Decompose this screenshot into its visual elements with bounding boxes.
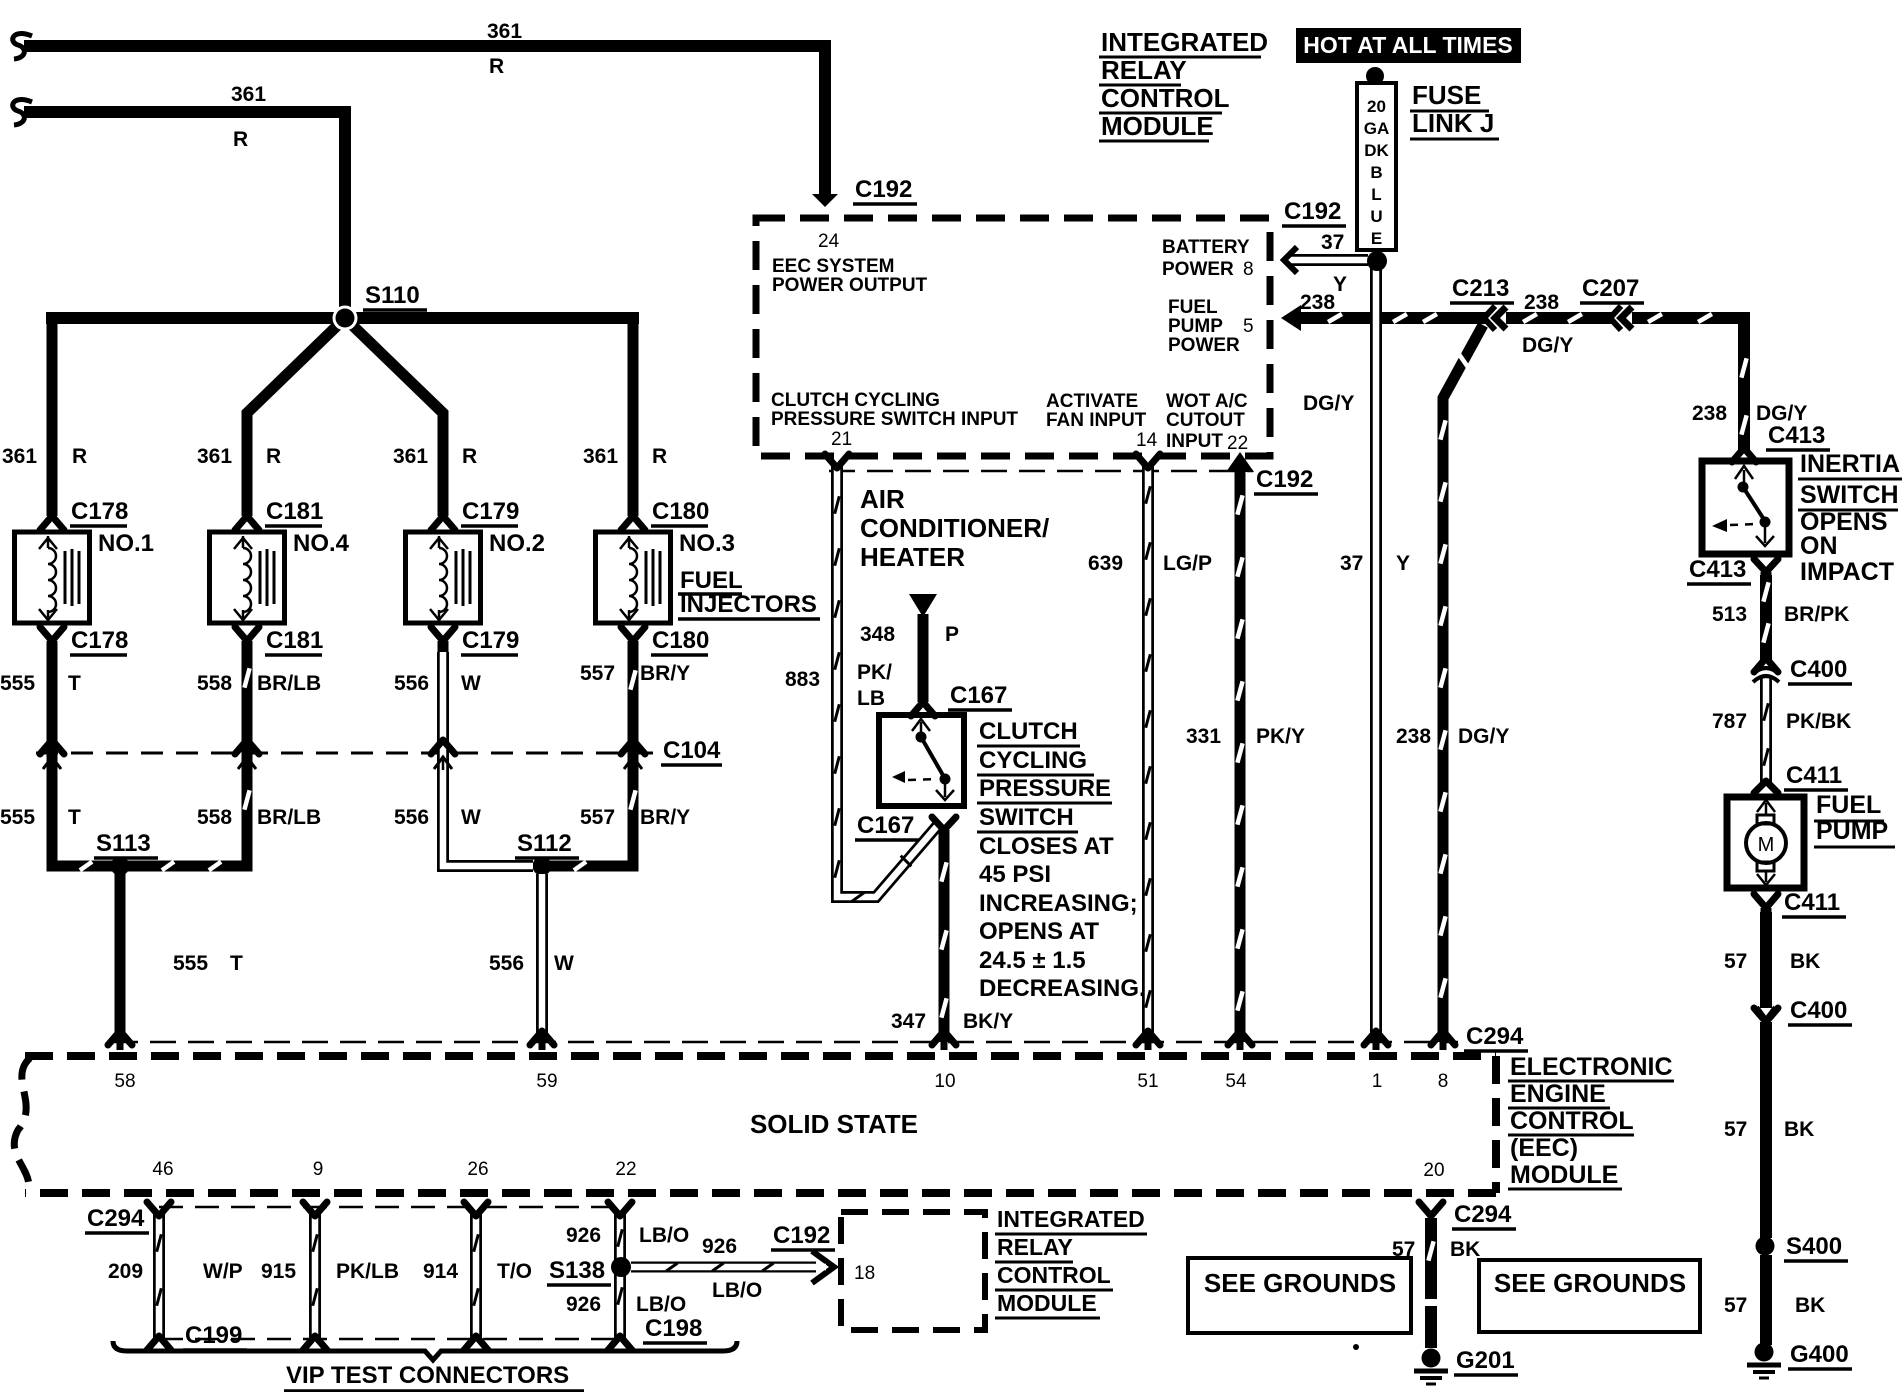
svg-text:37: 37	[1340, 552, 1363, 575]
svg-text:639: 639	[1088, 552, 1123, 575]
svg-text:C400: C400	[1790, 997, 1847, 1024]
svg-text:555: 555	[0, 806, 35, 829]
svg-text:BR/LB: BR/LB	[257, 806, 321, 829]
svg-text:C180: C180	[652, 627, 709, 654]
svg-text:22: 22	[1227, 433, 1248, 454]
svg-text:C181: C181	[266, 627, 323, 654]
svg-text:FUSE: FUSE	[1412, 80, 1481, 110]
svg-text:FUEL: FUEL	[1168, 297, 1218, 318]
connector forks at EEC/C294 edge	[108, 1031, 132, 1045]
svg-text:NO.2: NO.2	[489, 530, 545, 557]
wire 557 BR/Y (injector 3 to S112)	[548, 641, 633, 866]
svg-text:L: L	[1371, 185, 1381, 204]
inertia switch	[1702, 461, 1789, 554]
svg-text:C180: C180	[652, 498, 709, 525]
svg-text:558: 558	[197, 672, 232, 695]
svg-text:INTEGRATED: INTEGRATED	[1101, 27, 1268, 57]
air conditioner/heater box top dashed edge	[829, 470, 1253, 473]
svg-text:LG/P: LG/P	[1163, 552, 1212, 575]
svg-text:556: 556	[489, 952, 524, 975]
svg-text:CONDITIONER/: CONDITIONER/	[860, 513, 1049, 543]
svg-text:22: 22	[615, 1159, 636, 1180]
svg-text:GA: GA	[1364, 119, 1390, 138]
svg-text:57: 57	[1724, 1118, 1747, 1141]
brace under VIP test connectors	[113, 1341, 737, 1360]
stray dot	[1353, 1344, 1359, 1350]
wire 238 DG/Y (branch to EEC pin 8)	[1443, 325, 1483, 1042]
connector C294 (pin 20)	[1419, 1202, 1443, 1216]
svg-text:ACTIVATE: ACTIVATE	[1046, 391, 1138, 412]
svg-text:DK: DK	[1364, 141, 1389, 160]
svg-text:ELECTRONIC: ELECTRONIC	[1510, 1053, 1673, 1081]
svg-text:RELAY: RELAY	[1101, 55, 1187, 85]
svg-text:51: 51	[1137, 1071, 1158, 1092]
forks at C192 box bottom (pins 21, 14)	[825, 454, 849, 468]
svg-text:57: 57	[1724, 950, 1747, 973]
svg-text:238: 238	[1300, 291, 1335, 314]
svg-text:ENGINE: ENGINE	[1510, 1080, 1606, 1108]
svg-text:CONTROL: CONTROL	[1101, 83, 1230, 113]
svg-text:557: 557	[580, 806, 615, 829]
svg-text:ON: ON	[1800, 532, 1838, 560]
svg-text:59: 59	[536, 1071, 557, 1092]
svg-text:54: 54	[1225, 1071, 1247, 1092]
clutch cycling pressure switch	[879, 715, 964, 806]
svg-text:555: 555	[173, 952, 208, 975]
svg-text:CUTOUT: CUTOUT	[1166, 410, 1245, 431]
connector C167 (bottom)	[932, 817, 956, 830]
svg-text:CLOSES AT: CLOSES AT	[979, 833, 1114, 860]
EEC module box	[25, 1056, 1496, 1193]
svg-text:R: R	[233, 128, 248, 151]
wire 331 PK/Y (pin 22 to EEC pin 54)	[1226, 452, 1254, 472]
svg-text:46: 46	[152, 1159, 173, 1180]
svg-text:45 PSI: 45 PSI	[979, 861, 1051, 888]
svg-text:C181: C181	[266, 498, 323, 525]
svg-text:INCREASING;: INCREASING;	[979, 890, 1138, 917]
svg-text:926: 926	[566, 1293, 601, 1316]
svg-text:G400: G400	[1790, 1341, 1849, 1368]
svg-text:R: R	[462, 445, 477, 468]
svg-text:787: 787	[1712, 710, 1747, 733]
svg-text:CONTROL: CONTROL	[997, 1262, 1111, 1288]
svg-text:PK/: PK/	[857, 661, 892, 684]
svg-text:DG/Y: DG/Y	[1522, 334, 1573, 357]
svg-text:238: 238	[1524, 291, 1559, 314]
svg-text:14: 14	[1136, 430, 1158, 451]
svg-text:PK/BK: PK/BK	[1786, 710, 1851, 733]
svg-text:CONTROL: CONTROL	[1510, 1107, 1634, 1135]
svg-text:P: P	[945, 623, 959, 646]
wire 787 PK/BK (C400 to C411, hatched hollow)	[1760, 676, 1772, 783]
wire from S110 to injectors	[46, 312, 639, 324]
svg-text:C213: C213	[1452, 275, 1509, 302]
svg-text:20: 20	[1367, 97, 1386, 116]
svg-text:VIP TEST CONNECTORS: VIP TEST CONNECTORS	[286, 1362, 569, 1389]
wire 361 R (top feed 1)	[13, 34, 32, 59]
svg-text:R: R	[489, 55, 504, 78]
svg-text:361: 361	[197, 445, 232, 468]
wire 556 W (injector 2 to S112, unhatched double line)	[443, 652, 533, 866]
svg-text:(EEC): (EEC)	[1510, 1134, 1578, 1162]
splice S400	[1756, 1237, 1775, 1256]
splice S110	[333, 306, 358, 331]
svg-text:C207: C207	[1582, 275, 1639, 302]
svg-text:HEATER: HEATER	[860, 542, 965, 572]
svg-text:915: 915	[261, 1260, 296, 1283]
splice S138	[611, 1257, 631, 1277]
svg-text:M: M	[1758, 834, 1775, 856]
HOT AT ALL TIMES banner	[1296, 28, 1521, 63]
svg-text:T/O: T/O	[497, 1260, 532, 1283]
ground G400	[1755, 1343, 1774, 1362]
svg-text:LB/O: LB/O	[636, 1293, 686, 1316]
wire 883 PK/LB (EEC pin 21 to C167, hatched hollow)	[837, 466, 938, 897]
svg-text:LB: LB	[857, 687, 885, 710]
svg-text:557: 557	[580, 662, 615, 685]
ground G201	[1422, 1349, 1441, 1368]
svg-text:S400: S400	[1786, 1233, 1842, 1260]
svg-text:926: 926	[566, 1224, 601, 1247]
svg-text:C179: C179	[462, 627, 519, 654]
svg-text:C413: C413	[1768, 422, 1825, 449]
svg-text:8: 8	[1243, 259, 1254, 280]
svg-text:C294: C294	[87, 1205, 145, 1232]
svg-text:BATTERY: BATTERY	[1162, 237, 1250, 258]
connector C411 (upper)	[1754, 781, 1778, 793]
wire 37 Y (fuse link to C192 battery power)	[1290, 254, 1368, 266]
wire 37 Y (fuse link to EEC pin 1)	[1370, 268, 1382, 1042]
svg-text:S110: S110	[365, 282, 420, 309]
svg-text:PRESSURE: PRESSURE	[979, 775, 1111, 802]
IRCM box (bottom, pin 18)	[841, 1212, 985, 1330]
see grounds box (left)	[1188, 1258, 1411, 1333]
fuel pump	[1727, 797, 1804, 888]
svg-text:C294: C294	[1454, 1201, 1512, 1228]
svg-text:T: T	[68, 672, 81, 695]
svg-text:C179: C179	[462, 498, 519, 525]
wire 914 T/O (EEC pin 26 to C199/C198)	[470, 1212, 482, 1340]
svg-text:C400: C400	[1790, 656, 1847, 683]
svg-text:R: R	[266, 445, 281, 468]
svg-text:PRESSURE SWITCH INPUT: PRESSURE SWITCH INPUT	[771, 409, 1018, 430]
svg-text:361: 361	[583, 445, 618, 468]
svg-text:PUMP: PUMP	[1168, 316, 1223, 337]
svg-text:361: 361	[231, 83, 266, 106]
fuse link dot	[1367, 251, 1387, 271]
svg-text:361: 361	[487, 20, 522, 43]
svg-text:SWITCH: SWITCH	[979, 804, 1074, 831]
svg-text:FUEL: FUEL	[680, 567, 743, 594]
wire 639 LG/P (pin 14 to EEC pin 51, hatched hollow)	[1142, 466, 1154, 1042]
svg-text:238: 238	[1396, 725, 1431, 748]
connector C400 (upper)	[1754, 658, 1778, 672]
svg-text:SEE GROUNDS: SEE GROUNDS	[1494, 1268, 1686, 1298]
svg-text:HOT AT ALL TIMES: HOT AT ALL TIMES	[1303, 32, 1513, 58]
svg-text:883: 883	[785, 668, 820, 691]
svg-text:555: 555	[0, 672, 35, 695]
svg-text:C178: C178	[71, 498, 128, 525]
svg-text:EEC SYSTEM: EEC SYSTEM	[772, 256, 894, 277]
svg-text:24: 24	[818, 231, 840, 252]
wire 555 T (injector 1 to S113)	[52, 641, 114, 866]
svg-text:INPUT: INPUT	[1166, 431, 1223, 452]
svg-text:Y: Y	[1333, 273, 1347, 296]
svg-text:BR/PK: BR/PK	[1784, 603, 1849, 626]
wire 238 DG/Y (fuel pump power, horizontal)	[1281, 305, 1301, 331]
svg-text:NO.1: NO.1	[98, 530, 154, 557]
wire 361 R (top feed 2)	[13, 100, 32, 125]
svg-text:BK: BK	[1795, 1294, 1825, 1317]
svg-text:POWER: POWER	[1168, 335, 1240, 356]
svg-text:POWER: POWER	[1162, 259, 1234, 280]
svg-text:BK: BK	[1790, 950, 1820, 973]
wire 926 LB/O (S138 to IRCM pin 18, hollow arrow)	[631, 1262, 816, 1273]
svg-text:R: R	[652, 445, 667, 468]
svg-text:21: 21	[831, 429, 852, 450]
svg-text:MODULE: MODULE	[1101, 111, 1214, 141]
connector C104 (4 in-line connectors)	[40, 740, 64, 754]
wire 513 BR/PK (inertia switch to C400)	[1760, 575, 1772, 663]
svg-text:CLUTCH CYCLING: CLUTCH CYCLING	[771, 390, 940, 411]
svg-text:5: 5	[1243, 316, 1254, 337]
svg-text:PUMP: PUMP	[1816, 817, 1888, 845]
svg-text:B: B	[1370, 163, 1382, 182]
svg-text:BK: BK	[1784, 1118, 1814, 1141]
svg-text:T: T	[230, 952, 243, 975]
connector C104 dashed line	[36, 752, 655, 755]
svg-text:E: E	[1371, 229, 1382, 248]
svg-text:S112: S112	[517, 830, 572, 857]
svg-text:361: 361	[393, 445, 428, 468]
svg-text:C199: C199	[185, 1322, 242, 1349]
svg-text:W: W	[461, 672, 481, 695]
fuse link J (20 GA DK BLUE)	[1357, 83, 1396, 250]
svg-text:209: 209	[108, 1260, 143, 1283]
svg-text:MODULE: MODULE	[997, 1290, 1097, 1316]
svg-text:BK: BK	[1450, 1238, 1480, 1261]
svg-text:C411: C411	[1786, 762, 1842, 789]
VIP connector forks	[147, 1202, 171, 1216]
svg-text:W: W	[554, 952, 574, 975]
svg-text:347: 347	[891, 1010, 926, 1033]
svg-text:IMPACT: IMPACT	[1800, 558, 1894, 586]
splice S113	[111, 857, 130, 876]
svg-text:238: 238	[1692, 402, 1727, 425]
wire 926 LB/O (EEC pin 22 to S138/C198)	[614, 1212, 626, 1340]
svg-text:37: 37	[1321, 231, 1344, 254]
fuel injector NO.4	[210, 532, 285, 623]
svg-text:DECREASING.: DECREASING.	[979, 975, 1146, 1002]
svg-text:556: 556	[394, 672, 429, 695]
svg-text:INERTIA: INERTIA	[1800, 450, 1900, 478]
svg-text:1: 1	[1372, 1071, 1383, 1092]
svg-text:NO.4: NO.4	[293, 530, 350, 557]
svg-text:LB/O: LB/O	[712, 1279, 762, 1302]
svg-text:OPENS AT: OPENS AT	[979, 918, 1099, 945]
svg-text:S113: S113	[96, 830, 151, 857]
wire 348 P (clutch switch feed)	[909, 594, 937, 617]
svg-text:C411: C411	[1784, 889, 1840, 916]
svg-text:INJECTORS: INJECTORS	[680, 591, 817, 618]
svg-text:NO.3: NO.3	[679, 530, 735, 557]
svg-text:C104: C104	[663, 737, 721, 764]
connector C207	[1610, 306, 1621, 330]
connector C400 (lower)	[1757, 1007, 1775, 1019]
svg-text:58: 58	[114, 1071, 135, 1092]
connector C213	[1484, 306, 1495, 330]
svg-text:C294: C294	[1466, 1023, 1524, 1050]
svg-text:C178: C178	[71, 627, 128, 654]
svg-text:SEE GROUNDS: SEE GROUNDS	[1204, 1268, 1396, 1298]
svg-text:U: U	[1370, 207, 1382, 226]
wire 57 BK (fuel pump to C400)	[1760, 912, 1772, 1008]
wire 915 PK/LB (EEC pin 9 to C199)	[309, 1212, 321, 1340]
svg-text:W/P: W/P	[203, 1260, 243, 1283]
fuel injector NO.2	[406, 532, 481, 623]
module box C192 IRCM (EEC system power output)	[756, 218, 1270, 456]
wire from banner to fuse link	[1366, 67, 1384, 85]
svg-text:BR/Y: BR/Y	[640, 662, 690, 685]
svg-text:RELAY: RELAY	[997, 1234, 1073, 1260]
fuel injector NO.3	[596, 532, 671, 623]
svg-text:18: 18	[854, 1263, 875, 1284]
see grounds box (right)	[1479, 1260, 1700, 1332]
svg-text:20: 20	[1423, 1160, 1444, 1181]
svg-text:556: 556	[394, 806, 429, 829]
VIP connector dashed line bottom	[159, 1338, 620, 1341]
svg-text:C192: C192	[773, 1222, 830, 1249]
svg-text:513: 513	[1712, 603, 1747, 626]
svg-text:CYCLING: CYCLING	[979, 747, 1087, 774]
svg-text:FUEL: FUEL	[1816, 791, 1881, 819]
svg-text:C167: C167	[950, 682, 1007, 709]
svg-text:24.5 ± 1.5: 24.5 ± 1.5	[979, 947, 1086, 974]
wire 57 BK (EEC pin 20 to G201)	[1425, 1218, 1437, 1348]
svg-text:BR/Y: BR/Y	[640, 806, 690, 829]
svg-text:LB/O: LB/O	[639, 1224, 689, 1247]
svg-text:C192: C192	[1284, 198, 1341, 225]
wire 57 BK (S400 to G400)	[1760, 1255, 1772, 1345]
svg-text:POWER OUTPUT: POWER OUTPUT	[772, 275, 928, 296]
wire 555 T (S113 to EEC pin 58)	[115, 866, 126, 1042]
svg-text:57: 57	[1724, 1294, 1747, 1317]
svg-text:LINK J: LINK J	[1412, 108, 1494, 138]
svg-text:CLUTCH: CLUTCH	[979, 718, 1078, 745]
svg-text:26: 26	[467, 1159, 488, 1180]
svg-text:PK/LB: PK/LB	[336, 1260, 399, 1283]
connector C411 (lower)	[1754, 894, 1778, 908]
wire 347 BK/Y (clutch switch to EEC pin 10)	[939, 830, 950, 1042]
VIP connector dashed line top	[159, 1206, 620, 1209]
svg-text:G201: G201	[1456, 1347, 1515, 1374]
splice S112	[533, 857, 552, 876]
svg-text:S138: S138	[549, 1257, 605, 1284]
svg-text:FAN INPUT: FAN INPUT	[1046, 410, 1147, 431]
svg-text:R: R	[72, 445, 87, 468]
svg-text:DG/Y: DG/Y	[1458, 725, 1509, 748]
svg-text:9: 9	[313, 1159, 324, 1180]
svg-text:348: 348	[860, 623, 895, 646]
svg-text:SWITCH: SWITCH	[1800, 481, 1899, 509]
fuel injector NO.1	[15, 532, 90, 623]
svg-text:914: 914	[423, 1260, 458, 1283]
svg-text:926: 926	[702, 1235, 737, 1258]
EEC module box left wavy edge	[14, 1058, 30, 1191]
svg-text:C167: C167	[857, 812, 914, 839]
svg-text:PK/Y: PK/Y	[1256, 725, 1305, 748]
svg-text:8: 8	[1438, 1071, 1449, 1092]
svg-text:Y: Y	[1396, 552, 1410, 575]
connector C294 dashed line	[112, 1041, 1458, 1044]
svg-text:WOT A/C: WOT A/C	[1166, 391, 1248, 412]
svg-text:BK/Y: BK/Y	[963, 1010, 1013, 1033]
svg-text:331: 331	[1186, 725, 1221, 748]
svg-text:W: W	[461, 806, 481, 829]
svg-text:10: 10	[934, 1071, 955, 1092]
wire 558 BR/LB (injector 4 to S113)	[126, 641, 247, 866]
svg-text:T: T	[68, 806, 81, 829]
svg-text:C198: C198	[645, 1315, 702, 1342]
svg-text:558: 558	[197, 806, 232, 829]
svg-text:INTEGRATED: INTEGRATED	[997, 1206, 1145, 1232]
svg-text:MODULE: MODULE	[1510, 1161, 1618, 1189]
svg-text:SOLID STATE: SOLID STATE	[750, 1109, 918, 1139]
svg-text:C413: C413	[1689, 556, 1746, 583]
svg-text:BR/LB: BR/LB	[257, 672, 321, 695]
svg-text:C192: C192	[855, 176, 912, 203]
svg-text:361: 361	[2, 445, 37, 468]
svg-text:C192: C192	[1256, 466, 1313, 493]
svg-text:AIR: AIR	[860, 484, 905, 514]
wire 556 W (S112 to EEC pin 59)	[536, 874, 548, 1042]
connector C167 (top)	[911, 702, 935, 716]
svg-text:DG/Y: DG/Y	[1303, 392, 1354, 415]
wire 57 BK (C400 to S400)	[1760, 1022, 1772, 1238]
wire 209 W/P (EEC pin 46 to C199)	[153, 1212, 165, 1340]
